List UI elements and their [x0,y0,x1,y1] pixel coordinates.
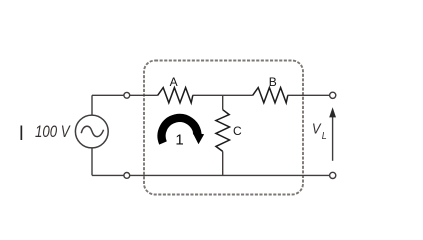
terminal bottom-left [124,173,130,179]
wire node A-C junction vertical [222,95,224,109]
resistor A [158,88,193,103]
ac voltage source V1 circle [75,115,108,148]
dashed subcircuit box [144,61,303,195]
terminal top-left [124,92,130,98]
wire C bottom lead [222,151,224,175]
svg-text:L: L [322,130,327,142]
wire top: resistor A to node, node to resistor B [193,94,253,96]
wire top: resistor B to right terminal [288,94,331,96]
mesh current loop arrow [162,118,198,143]
terminal top-right [330,92,336,98]
svg-text:B: B [269,75,277,89]
VL arrowhead [329,107,336,117]
VL arrow line [332,115,334,161]
svg-text:100 V: 100 V [35,122,71,141]
svg-text:V: V [312,121,322,138]
wire left vertical (source top lead) [91,95,93,115]
wire top: source to resistor A [92,94,158,96]
terminal bottom-right [330,172,336,178]
ac source sine symbol [81,126,103,136]
mesh loop arrowhead [193,133,205,145]
svg-text:1: 1 [175,132,183,149]
svg-text:C: C [233,124,242,138]
text cursor bar [21,126,23,141]
wire left vertical (source bottom lead) [91,148,93,176]
resistor B [253,88,288,103]
svg-text:A: A [170,75,178,89]
wire bottom rail [92,174,330,176]
resistor C [216,110,230,152]
